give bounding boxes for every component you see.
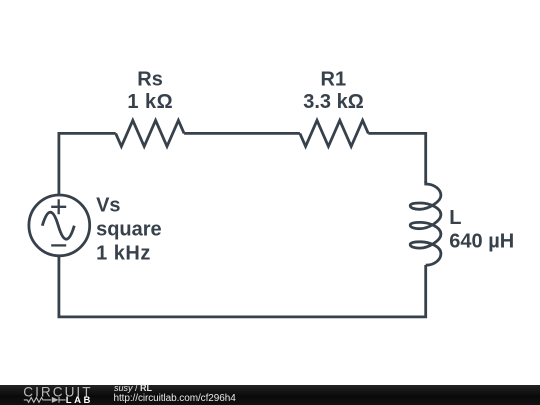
logo resistor+diode wire [24,397,66,403]
svg-text:3.3 kΩ: 3.3 kΩ [303,91,364,113]
resistor Rs [116,120,184,146]
footer bar [0,385,540,405]
wire: right rail below inductor, bottom rail, left rail up to source bottom [59,256,426,317]
resistor R1 [300,120,368,146]
wire: top rail from R1 to top-right corner down to inductor [368,133,425,182]
voltage source sine wave [42,212,74,239]
svg-text:R1: R1 [321,68,347,90]
logo diode triangle [52,396,59,402]
svg-text:L: L [449,207,461,229]
svg-text:640 µH: 640 µH [449,230,514,252]
svg-text:1 kHz: 1 kHz [96,242,151,264]
footer url line [114,394,236,404]
svg-text:Rs: Rs [137,68,163,90]
voltage source plus sign [51,199,66,214]
wire: left rail from source top up and along top to Rs [59,133,116,195]
voltage source Vs circle [29,195,90,256]
svg-text:Vs: Vs [96,194,120,216]
voltage source minus sign [51,244,66,246]
wire: top rail between Rs and R1 [184,132,300,135]
svg-text:1 kΩ: 1 kΩ [127,91,173,113]
svg-text:square: square [96,218,162,240]
svg-text:LAB: LAB [66,394,91,404]
logo text CIRCUIT [23,384,90,399]
inductor L coil [410,181,441,265]
footer credit line [114,384,152,393]
